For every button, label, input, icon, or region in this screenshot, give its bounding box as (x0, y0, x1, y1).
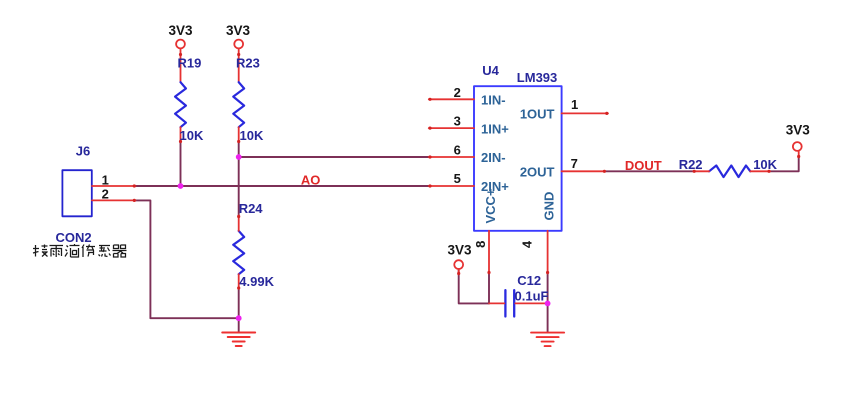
svg-text:1: 1 (102, 172, 109, 187)
wire R24 bottom to ground (238, 289, 240, 333)
power 3V3 top-left circle (176, 40, 185, 49)
svg-text:DOUT: DOUT (625, 158, 662, 173)
svg-text:2: 2 (454, 85, 461, 100)
svg-text:2IN-: 2IN- (481, 150, 506, 165)
svg-text:R19: R19 (178, 56, 202, 71)
svg-text:1: 1 (571, 97, 578, 112)
node junction R23/2IN- (236, 154, 242, 160)
wire R19 bottom to AO net (180, 142, 182, 187)
svg-text:6: 6 (454, 142, 461, 157)
pin power stub right (798, 151, 800, 158)
svg-text:2: 2 (102, 187, 109, 202)
pin U4.5 (429, 185, 474, 187)
glyph yu (50, 246, 64, 258)
svg-text:AO: AO (301, 172, 321, 187)
pin U4.2 (429, 98, 474, 100)
pin R22 left (693, 170, 709, 172)
ground under C12 node (531, 333, 564, 347)
svg-text:8: 8 (473, 241, 488, 248)
svg-text:10K: 10K (240, 128, 264, 143)
svg-text:2OUT: 2OUT (520, 165, 555, 180)
resistor R23 body (233, 82, 244, 127)
svg-text:4: 4 (520, 240, 535, 248)
svg-text:R22: R22 (679, 157, 703, 172)
svg-text:R24: R24 (239, 201, 264, 216)
node junction C12/pin4 (545, 301, 551, 307)
pin R22 right (750, 170, 770, 172)
svg-text:GND: GND (541, 192, 556, 221)
svg-text:5: 5 (454, 171, 461, 186)
pin J6.2 (92, 199, 136, 201)
wire R22 to 3V3 right (770, 157, 799, 172)
wire AO net J6.1 to U4 pin5 (136, 185, 429, 187)
pin C12 left (489, 302, 504, 304)
glyph gan (99, 246, 111, 257)
power 3V3 second circle (234, 40, 243, 49)
svg-text:R23: R23 (236, 56, 260, 71)
wire R23 bottom to R24 top (238, 142, 240, 216)
pin power stub bottom-left (458, 269, 460, 275)
svg-text:3V3: 3V3 (786, 122, 811, 137)
op-amp U4 LM393 body (474, 86, 562, 231)
wire 3V3 to C12 left (459, 270, 489, 304)
node junction ground net left (236, 315, 242, 321)
pin R24 bottom (238, 274, 240, 289)
power 3V3 bottom-left circle (454, 260, 463, 269)
pin U4.8 (488, 231, 490, 274)
capacitor C12 right plate (513, 290, 515, 316)
glyph chuan (82, 245, 84, 258)
svg-text:3: 3 (454, 114, 461, 129)
pin power stub into R23 (238, 48, 240, 82)
ground under R24 (222, 333, 255, 347)
pin U4.7 (562, 170, 606, 172)
pin R24 top (238, 215, 240, 231)
svg-text:LM393: LM393 (517, 70, 557, 85)
value Chinese caption glyphs (33, 244, 127, 257)
pin J6.1 (92, 185, 136, 187)
svg-text:C12: C12 (517, 273, 541, 288)
svg-text:CON2: CON2 (56, 230, 92, 245)
pin R23 bottom (238, 127, 240, 141)
pin U4.3 (429, 127, 474, 129)
resistor R22 body (709, 166, 750, 178)
pin C12 right (515, 302, 547, 304)
svg-text:4.99K: 4.99K (239, 274, 274, 289)
resistor R19 body (175, 82, 186, 127)
svg-text:3V3: 3V3 (447, 243, 472, 258)
svg-text:1IN+: 1IN+ (481, 121, 509, 136)
wire J6.2 to ground node (136, 200, 239, 318)
capacitor C12 left plate (504, 290, 506, 316)
pin U4.4 (547, 231, 549, 274)
wire DOUT net U4 pin7 to R22 (605, 170, 693, 172)
svg-text:U4: U4 (482, 63, 499, 78)
wire 2IN- net junction to U4 pin6 (239, 156, 429, 158)
glyph jie (33, 245, 39, 257)
pin R19 bottom (180, 127, 182, 141)
pin U4.6 (429, 156, 474, 158)
wire C12 node to ground (547, 303, 549, 332)
resistor R24 body (233, 231, 244, 274)
svg-text:1OUT: 1OUT (520, 107, 555, 122)
svg-text:3V3: 3V3 (168, 23, 193, 38)
svg-text:7: 7 (571, 156, 578, 171)
glyph di (65, 246, 68, 257)
svg-text:VCC+: VCC+ (483, 188, 498, 223)
wire U4 pin4 to C12 node (547, 274, 549, 304)
glyph qi (113, 245, 127, 257)
svg-text:10K: 10K (180, 128, 204, 143)
node junction R19/AO (178, 183, 184, 189)
pin power stub into R19 (180, 48, 182, 82)
svg-text:3V3: 3V3 (226, 23, 251, 38)
power 3V3 right circle (793, 142, 802, 151)
connector J6 box (62, 170, 91, 216)
wire U4 pin8 to VCC node (488, 274, 490, 304)
svg-text:10K: 10K (753, 157, 777, 172)
svg-text:1IN-: 1IN- (481, 93, 506, 108)
svg-text:0.1uF: 0.1uF (515, 288, 549, 303)
pin U4.1 (562, 112, 608, 114)
svg-text:J6: J6 (76, 144, 90, 159)
